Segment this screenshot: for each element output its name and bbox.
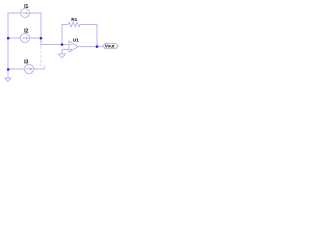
svg-text:I1: I1: [24, 4, 28, 10]
svg-text:I2: I2: [24, 28, 28, 34]
svg-text:R1: R1: [71, 17, 77, 22]
svg-text:U1: U1: [73, 38, 79, 44]
svg-text:I3: I3: [24, 59, 28, 65]
svg-text:Vout: Vout: [105, 44, 115, 49]
